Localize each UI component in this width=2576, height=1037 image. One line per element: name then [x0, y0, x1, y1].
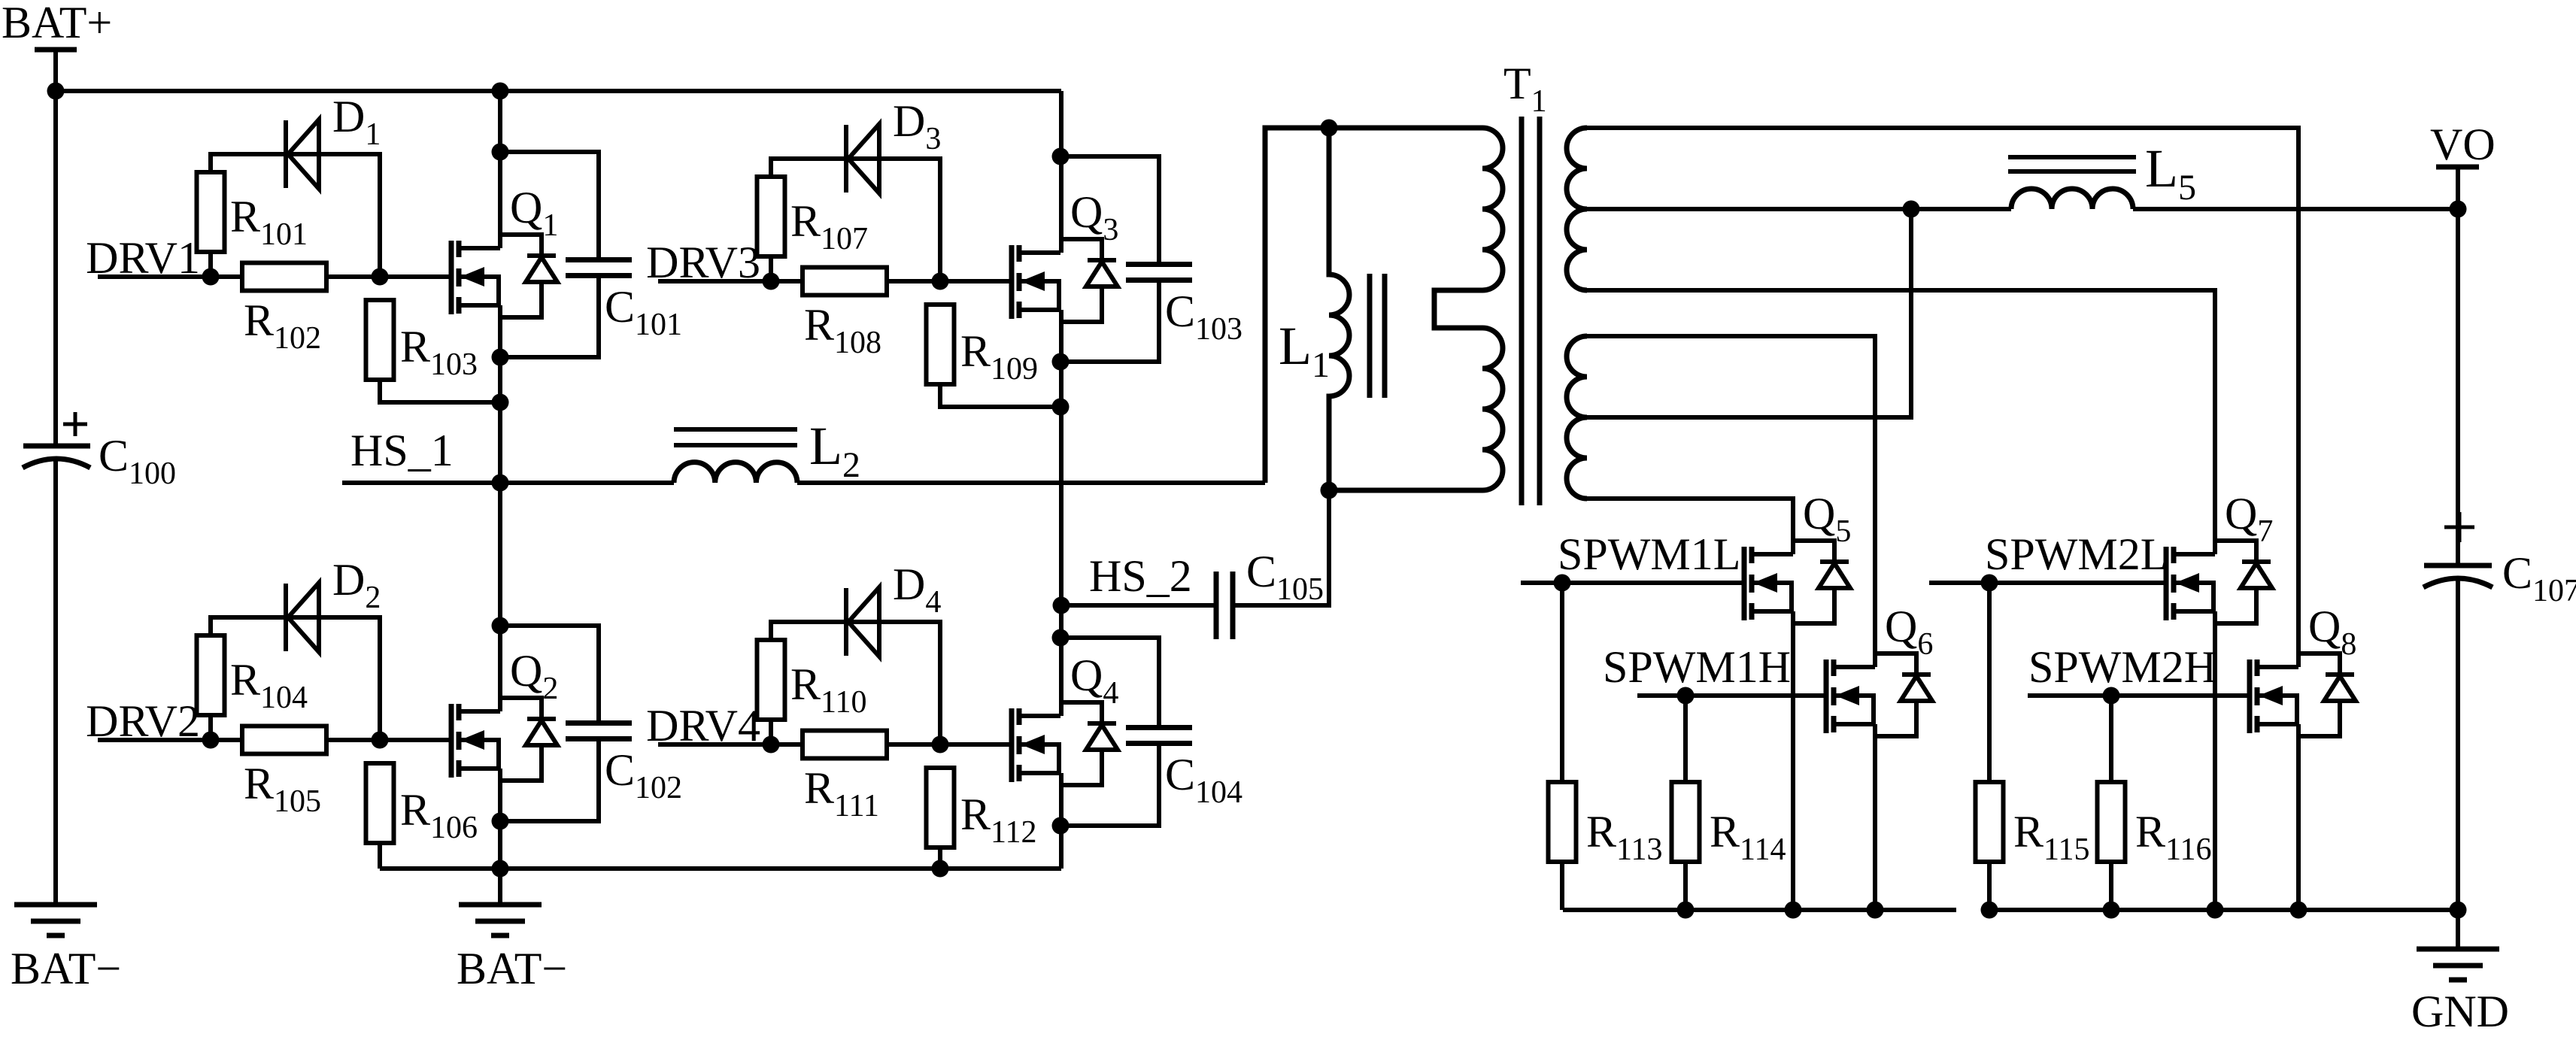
- wire gate: [326, 738, 449, 742]
- node SPWM1H: [1677, 687, 1695, 705]
- wire R109 to source: [940, 384, 1060, 407]
- resistor R113: [1549, 782, 1576, 862]
- wire top BAT+ rail: [56, 89, 1061, 93]
- capacitor C103: [1126, 262, 1192, 267]
- diode D1: [284, 120, 288, 188]
- node DRV4: [763, 736, 780, 753]
- wire R114 to rail: [1683, 862, 1688, 910]
- wire C105 to L1 bottom: [1233, 490, 1329, 605]
- wire R113 to rail: [1560, 862, 1564, 910]
- svg-text:SPWM2H: SPWM2H: [2028, 642, 2216, 692]
- diode D2: [284, 584, 288, 651]
- svg-text:BAT−: BAT−: [11, 944, 121, 993]
- resistor R115: [1976, 782, 2004, 862]
- node VO: [2450, 201, 2467, 218]
- node Q1 drain rail: [492, 83, 509, 100]
- wire DRV4 lead: [658, 742, 803, 747]
- node Q2 source rail: [492, 860, 509, 878]
- node gate: [372, 732, 389, 749]
- transistor Q7: [2164, 547, 2169, 620]
- node Q7 source rail: [2207, 902, 2224, 919]
- ground BAT- mid: [498, 869, 502, 905]
- resistor R114: [1672, 782, 1700, 862]
- wire DRV3 lead: [658, 279, 803, 284]
- svg-text:GND: GND: [2411, 987, 2509, 1036]
- node gate: [932, 736, 949, 753]
- svg-text:HS_2: HS_2: [1089, 551, 1192, 601]
- node source R103: [492, 394, 509, 411]
- wire SPWM1L to R113: [1560, 583, 1564, 782]
- transistor Q1: [449, 241, 454, 314]
- diode D4: [844, 588, 848, 656]
- node Q6 source rail: [1867, 902, 1884, 919]
- wire Q8 source to rail: [2296, 724, 2301, 910]
- node SPWM2L: [1981, 575, 1998, 592]
- node R116 rail: [2103, 902, 2120, 919]
- node drain C101: [492, 144, 509, 161]
- wire Q3 drain from rail: [1059, 91, 1063, 253]
- wire gate: [887, 279, 1009, 284]
- wire diode D4 loop: [771, 622, 940, 744]
- ground GND: [2456, 910, 2460, 949]
- node R114 rail: [1677, 902, 1695, 919]
- wire SPWM2L to R115: [1987, 583, 1992, 782]
- svg-text:BAT+: BAT+: [2, 0, 112, 47]
- transistor Q8: [2247, 659, 2253, 733]
- node source C103: [1052, 353, 1070, 371]
- resistor R103: [366, 300, 394, 380]
- wire C100 to ground: [53, 459, 58, 905]
- svg-text:SPWM2L: SPWM2L: [1985, 529, 2168, 579]
- terminal BAT+ bar: [35, 47, 77, 53]
- wire diode D1 loop: [211, 154, 380, 277]
- svg-text:VO: VO: [2430, 120, 2496, 169]
- wire secondary top lead to Q8 drain: [1587, 128, 2298, 667]
- svg-text:SPWM1L: SPWM1L: [1558, 529, 1740, 579]
- wire Q4 drain from HS_2: [1059, 605, 1063, 716]
- node HS_2: [1053, 597, 1070, 614]
- resistor R105: [242, 726, 326, 754]
- capacitor C102: [566, 720, 632, 726]
- node HS_1: [492, 475, 509, 492]
- wire secondary lead to Q6 drain: [1587, 336, 1875, 667]
- wire Q1 source to HS_1: [498, 305, 502, 483]
- wire SPWM1H to R114: [1683, 696, 1688, 782]
- wire secondary lead to Q7 drain: [1587, 290, 2215, 554]
- resistor R110: [757, 640, 785, 720]
- wire HS_1 left: [342, 481, 674, 485]
- node R115 rail start: [1981, 902, 1998, 919]
- resistor R101: [197, 172, 225, 252]
- resistor R104: [197, 635, 225, 715]
- wire secondary mid-bottom lead: [1587, 415, 1911, 420]
- svg-text:SPWM1H: SPWM1H: [1603, 642, 1791, 692]
- node Q8 source rail: [2290, 902, 2307, 919]
- wire SPWM2H gate lead: [2028, 693, 2247, 698]
- resistor R111: [803, 731, 887, 759]
- wire tap to Q6 drain net: [1875, 209, 1911, 417]
- node source R109: [1052, 399, 1070, 416]
- resistor R108: [803, 268, 887, 296]
- wire Q2 source to rail: [498, 769, 502, 869]
- wire gate: [326, 274, 449, 279]
- wire R116 to rail: [2109, 862, 2113, 910]
- node DRV1: [202, 268, 220, 286]
- transformer T1 core: [1519, 117, 1525, 505]
- node R112 rail: [932, 860, 949, 878]
- node SPWM1L: [1554, 575, 1571, 592]
- node Q5 source rail: [1785, 902, 1802, 919]
- wire R115 to rail: [1987, 862, 1992, 910]
- wire SPWM2H to R116: [2109, 696, 2113, 782]
- wire Q5 source to rail: [1791, 611, 1795, 910]
- inductor L2: [674, 462, 797, 483]
- ground BAT- left: [14, 902, 97, 908]
- node L1 bottom: [1321, 482, 1338, 499]
- wire left column to C100: [53, 91, 58, 446]
- wire diode D2 loop: [211, 617, 380, 740]
- node drain C104: [1052, 629, 1070, 647]
- wire Q4 source to rail: [1059, 773, 1063, 869]
- inductor L5: [2011, 189, 2133, 209]
- node L5 tap: [1903, 201, 1920, 218]
- capacitor C100: [23, 444, 90, 449]
- resistor R102: [242, 263, 326, 291]
- transistor Q4: [1009, 708, 1015, 782]
- node gate: [372, 268, 389, 286]
- winding T1 secondary bottom: [1567, 336, 1587, 499]
- node drain C103: [1052, 148, 1070, 165]
- node source C101: [492, 349, 509, 366]
- wire SPWM1H gate lead: [1637, 693, 1824, 698]
- capacitor C107: [2424, 563, 2492, 569]
- winding T1 secondary top: [1567, 128, 1587, 290]
- resistor R112: [927, 768, 954, 847]
- diode D3: [844, 125, 848, 193]
- wire SPWM2L gate lead: [1929, 581, 2164, 585]
- node DRV3: [763, 273, 780, 290]
- svg-text:BAT−: BAT−: [457, 944, 567, 993]
- wire HS_1 riser and primary winding T1: [1265, 128, 1503, 490]
- wire Q2 drain from HS_1: [498, 483, 502, 711]
- capacitor C101: [566, 257, 632, 262]
- wire R112 to rail: [938, 847, 942, 869]
- node BAT+ rail junction: [47, 83, 65, 100]
- node gate: [932, 273, 949, 290]
- wire Q3 source to HS_2: [1059, 310, 1063, 605]
- wire VO to C107: [2456, 209, 2460, 565]
- transistor Q3: [1009, 245, 1015, 319]
- capacitor C105: [1214, 572, 1219, 639]
- wire Q7 source to rail: [2213, 611, 2217, 910]
- wire HS_2: [1061, 603, 1214, 608]
- wire rail SPWM2 group to GND: [1989, 908, 2458, 912]
- wire C107 to rail: [2456, 578, 2460, 910]
- wire SPWM1L gate lead: [1521, 581, 1742, 585]
- wire DRV1 lead: [98, 274, 242, 279]
- node GND rail: [2450, 902, 2467, 919]
- transistor Q2: [449, 704, 454, 778]
- resistor R107: [757, 177, 785, 256]
- wire Q6 source to rail: [1873, 724, 1877, 910]
- wire HS_1 right: [797, 481, 1265, 485]
- svg-text:HS_1: HS_1: [350, 426, 454, 475]
- transistor Q5: [1742, 547, 1747, 620]
- wire L5 to VO: [2133, 207, 2458, 211]
- wire secondary bottom lead to Q5 drain: [1587, 499, 1793, 554]
- resistor R109: [927, 305, 954, 384]
- wire diode D3 loop: [771, 159, 940, 281]
- wire rail SPWM1 group: [1563, 908, 1956, 912]
- inductor L1: [1329, 128, 1349, 490]
- transistor Q6: [1824, 659, 1829, 733]
- wire secondary mid lead / L5 line left: [1587, 207, 2011, 211]
- node SPWM2H: [2103, 687, 2120, 705]
- wire DRV2 lead: [98, 738, 242, 742]
- node source C104: [1052, 817, 1070, 835]
- capacitor C104: [1126, 725, 1192, 730]
- resistor R106: [366, 763, 394, 843]
- wire R106 to rail: [378, 843, 382, 869]
- wire Q1 drain: [498, 91, 502, 248]
- wire R103 to source: [380, 380, 500, 402]
- resistor R116: [2098, 782, 2125, 862]
- node L1 top: [1321, 120, 1338, 137]
- wire BAT+ to rail: [53, 50, 58, 91]
- wire bottom BAT- rail: [380, 866, 1061, 871]
- node source C102: [492, 813, 509, 830]
- node drain C102: [492, 617, 509, 635]
- wire gate: [887, 742, 1009, 747]
- node DRV2: [202, 732, 220, 749]
